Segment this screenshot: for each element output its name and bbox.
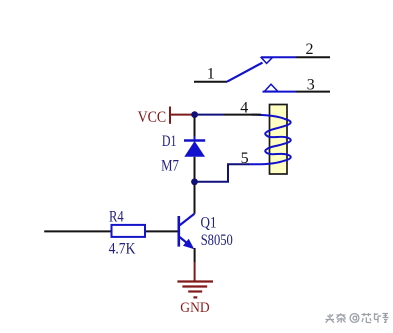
svg-text:M7: M7: [161, 157, 179, 174]
svg-text:S8050: S8050: [201, 232, 233, 249]
svg-text:4: 4: [240, 100, 248, 117]
svg-text:D1: D1: [162, 133, 177, 150]
svg-text:GND: GND: [180, 300, 209, 316]
svg-text:4.7K: 4.7K: [109, 241, 136, 258]
svg-text:Q1: Q1: [201, 215, 217, 232]
svg-text:5: 5: [241, 150, 249, 167]
svg-text:3: 3: [307, 76, 315, 93]
svg-text:1: 1: [207, 66, 215, 83]
svg-text:VCC: VCC: [138, 109, 167, 126]
svg-text:R4: R4: [109, 208, 124, 225]
svg-text:2: 2: [306, 41, 314, 58]
